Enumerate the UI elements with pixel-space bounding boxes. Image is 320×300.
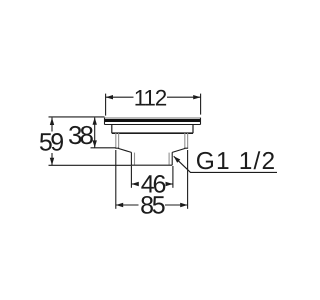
dim 59/38 top extension line [49,116,105,118]
tail outer wall left [130,152,132,165]
svg-text:59: 59 [39,129,63,157]
dim 112 extension line left [105,94,107,116]
tail outer wall right [171,152,173,165]
dim 112 line right segment [167,96,201,98]
dim 46 extension line right [172,166,174,188]
body wall right outer line [187,133,189,148]
body wall left inner line [118,133,120,148]
dim 46 arrow right [166,182,173,186]
dim 38 arrow down [93,140,97,147]
dim 85 arrow right [180,203,187,207]
dim 85 extension line right [187,150,189,209]
taper right [172,148,185,152]
dim 38 bottom extension line [91,147,116,149]
tail thread inner line right [168,153,170,165]
taper left [118,148,131,152]
dim 112 arrow right [193,95,200,99]
dim 85 arrow left [116,203,123,207]
flange black band [105,119,200,122]
body wall left outer line [115,133,117,148]
svg-text:G1 1/2: G1 1/2 [196,148,276,175]
svg-text:112: 112 [134,86,167,111]
leader line G1 1/2 [174,156,277,172]
dim 59 arrow down [50,158,54,165]
dim 85 line right segment [165,204,188,206]
step ring left edge [111,125,113,134]
dim 112 arrow left [106,95,113,99]
dim 46 extension line left [130,166,132,188]
dim 59 line upper segment [51,118,53,132]
flange top plate outline [105,118,201,125]
dim 59 arrow up [50,118,54,125]
ring bottom edge [112,132,193,134]
svg-text:85: 85 [140,191,165,219]
tail thread inner line left [134,153,136,165]
pan bottom right corner [184,147,188,149]
dim 38 line [94,118,96,148]
body wall right inner line [184,133,186,148]
step ring right edge [192,125,194,134]
dim 59 line lower segment [51,153,53,165]
pan bottom left corner [115,147,119,149]
dim 85 line left segment [116,204,139,206]
dim 46 line left segment [131,183,138,185]
dim 85 extension line left [115,150,117,209]
dim 59 bottom extension line [49,164,132,166]
tail bottom edge [131,164,172,166]
dim 46 arrow left [131,182,138,186]
svg-text:38: 38 [68,120,93,150]
dim 112 extension line right [200,94,202,115]
leader arrowhead [174,156,181,162]
dim 38 arrow up [93,117,97,124]
dim 112 line left segment [106,96,134,98]
dim 46 line right segment [166,183,173,185]
